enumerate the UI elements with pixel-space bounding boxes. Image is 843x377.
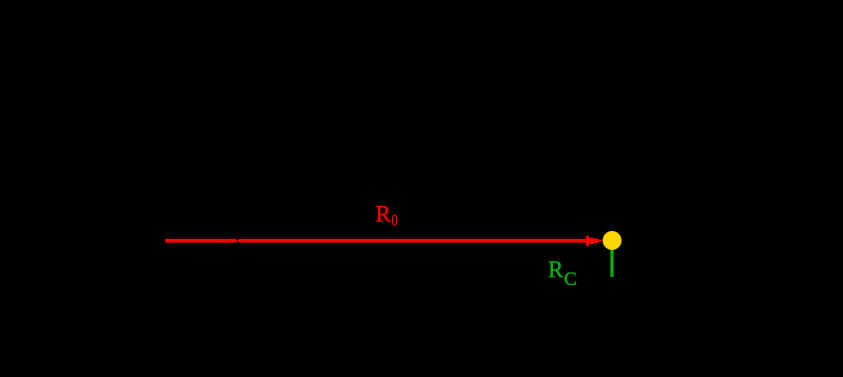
svg-text:R: R [548,257,564,282]
svg-text:R: R [376,202,392,227]
svg-text:C: C [564,269,577,290]
svg-text:0: 0 [392,212,398,230]
